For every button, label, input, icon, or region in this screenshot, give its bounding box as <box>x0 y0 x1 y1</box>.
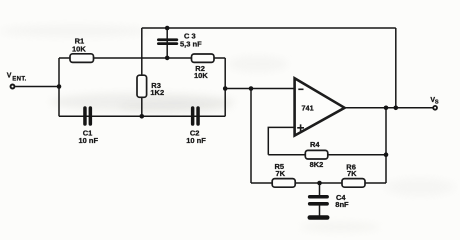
resistor R5 <box>272 162 295 187</box>
svg-text:8K2: 8K2 <box>310 160 324 169</box>
wire R5 vertical <box>250 89 252 184</box>
wire inverting input <box>225 88 294 90</box>
svg-text:10K: 10K <box>72 45 86 54</box>
capacitor C4 <box>308 193 349 209</box>
wire feedback vertical <box>395 28 397 108</box>
wire C4 to ground <box>319 205 321 216</box>
pin plus <box>297 124 304 131</box>
svg-text:V: V <box>7 73 12 80</box>
faint scan smudges <box>0 25 150 37</box>
svg-text:S: S <box>435 99 439 105</box>
wire R3 branch <box>141 28 143 116</box>
svg-text:7K: 7K <box>347 169 357 178</box>
node R4 right <box>384 152 389 157</box>
svg-text:10 nF: 10 nF <box>186 136 206 145</box>
node C3 top <box>165 26 170 31</box>
node twin-T output <box>223 86 228 91</box>
ground <box>308 215 330 220</box>
wire C3 branch <box>166 28 168 58</box>
node R3 bottom <box>140 114 145 119</box>
wire R5-R6 horizontal <box>251 182 386 184</box>
capacitor C3 <box>157 32 202 49</box>
wire twin-T right vertical <box>224 58 226 116</box>
svg-text:10 nF: 10 nF <box>79 136 99 145</box>
capacitor C2 <box>186 106 206 145</box>
resistor R2 <box>192 54 215 80</box>
node output B <box>394 106 399 111</box>
wire bottom horizontal <box>59 115 225 117</box>
node C3 bottom <box>165 56 170 61</box>
wire top feedback <box>142 27 396 29</box>
wire left vertical <box>58 58 60 116</box>
wire noninverting input <box>268 127 294 154</box>
node C4 junction <box>317 181 322 186</box>
svg-text:ENT.: ENT. <box>12 76 26 82</box>
wire C4 stub <box>319 183 321 196</box>
wire input <box>15 86 59 88</box>
op-amp U1 741 <box>295 78 345 135</box>
svg-text:8nF: 8nF <box>335 200 349 209</box>
svg-text:741: 741 <box>302 103 314 112</box>
resistor R3 <box>137 75 164 97</box>
wire R1-R2 horizontal <box>59 57 225 59</box>
svg-text:7K: 7K <box>276 169 286 178</box>
resistor R1 <box>70 36 94 62</box>
svg-text:5,3 nF: 5,3 nF <box>180 40 202 49</box>
node input junction <box>57 84 62 89</box>
wire right vertical <box>385 108 387 183</box>
capacitor C1 <box>79 106 99 145</box>
wire output <box>345 107 433 109</box>
svg-text:1K2: 1K2 <box>150 88 164 97</box>
node R5 branch <box>249 86 254 91</box>
pin minus <box>298 88 303 90</box>
terminal VENT <box>7 73 27 89</box>
resistor R6 <box>342 162 365 187</box>
resistor R4 <box>305 140 328 169</box>
svg-text:R4: R4 <box>310 140 320 149</box>
terminal VS <box>430 97 439 110</box>
svg-text:10K: 10K <box>194 71 208 80</box>
node output A <box>384 106 389 111</box>
wire R4 horizontal <box>268 154 386 156</box>
